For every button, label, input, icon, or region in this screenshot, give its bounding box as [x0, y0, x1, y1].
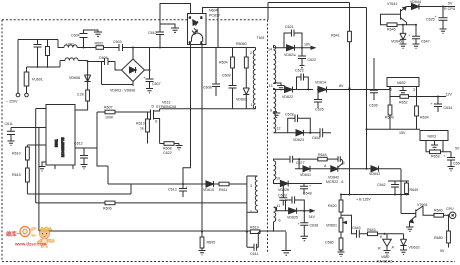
wire node to C604 [77, 47, 96, 49]
svg-text:FU601: FU601 [32, 78, 43, 82]
svg-text:V7605: V7605 [417, 203, 427, 207]
diode VD644 [407, 4, 456, 10]
svg-text:+: + [294, 54, 296, 58]
svg-text:R611: R611 [219, 188, 227, 192]
capacitor C638 [300, 211, 308, 241]
svg-text:VD610: VD610 [203, 188, 214, 192]
capacitor C634 [434, 97, 442, 113]
svg-text:R653: R653 [431, 154, 440, 158]
svg-text:R609: R609 [385, 116, 394, 120]
svg-text:T601: T601 [257, 36, 265, 40]
AC input terminal N [25, 93, 29, 97]
svg-text:+: + [186, 186, 188, 190]
secondary winding w4 115V [274, 161, 276, 180]
svg-text:C606: C606 [99, 56, 108, 60]
svg-text:R649: R649 [410, 188, 419, 192]
snubber C621 loop [284, 30, 302, 48]
svg-text:+: + [435, 15, 437, 19]
wiper wire to C643 [352, 223, 357, 234]
svg-text:VR601: VR601 [326, 223, 337, 227]
capacitor C610 [156, 24, 175, 48]
source resistor R608 [160, 143, 164, 145]
capacitor C608 [212, 48, 220, 97]
resistor R609 [389, 97, 391, 106]
svg-text:C604: C604 [71, 33, 80, 37]
svg-text:C626: C626 [315, 108, 324, 112]
capacitor C612 [80, 148, 88, 164]
regulator N652 box [387, 78, 419, 87]
svg-text:R CPU: R CPU [444, 7, 456, 11]
bleeder resistor [47, 40, 49, 68]
capacitor C636 [370, 88, 378, 100]
svg-text:+: + [444, 154, 446, 158]
capacitor C607 [145, 48, 154, 89]
potentiometer VR601 [340, 212, 342, 218]
capacitor C603 [104, 44, 134, 51]
MOSFET V613 [151, 109, 160, 144]
resistor R610 [26, 145, 28, 147]
ground near C610 [171, 28, 179, 32]
gate drive wire from R607 [97, 112, 108, 184]
svg-text:C641: C641 [312, 136, 321, 140]
fuse FU601 [26, 67, 28, 93]
IC pin 2 wire [11, 127, 46, 129]
resistor R602 [96, 46, 104, 50]
w2 bottom ground [273, 112, 281, 118]
transformer core dashed line [267, 20, 269, 252]
svg-text:C603: C603 [113, 40, 122, 44]
resistor R640 [434, 214, 444, 218]
svg-text:C611: C611 [5, 122, 13, 126]
capacitor C606 [88, 58, 122, 70]
capacitor C642 [391, 181, 399, 195]
R619 C611 snubber [250, 230, 259, 234]
snubber loop C over VD625 [286, 196, 305, 210]
capacitor C643 [357, 230, 368, 238]
svg-text:C621: C621 [285, 25, 294, 29]
svg-text:11: 11 [277, 204, 281, 208]
svg-text:C609: C609 [222, 74, 231, 78]
svg-text:15V: 15V [399, 131, 406, 135]
top feedback wire A [268, 3, 350, 20]
resistor R649 [406, 181, 408, 183]
diode VD623 [296, 130, 303, 136]
diode VD641 [295, 166, 331, 172]
svg-text:C642: C642 [377, 183, 386, 187]
svg-text:1: 1 [250, 210, 252, 214]
gate coupling cap [338, 156, 343, 164]
feedback divider chain R620 [340, 195, 342, 201]
wire x218 [217, 8, 219, 48]
svg-text:2: 2 [250, 51, 252, 55]
svg-text:R610: R610 [12, 152, 21, 156]
resistor R613 1k [147, 112, 149, 119]
+B 115V rail [341, 194, 409, 196]
snubber resistor R6060 [245, 48, 247, 58]
N603 pins [426, 141, 443, 150]
svg-text:VD608: VD608 [69, 76, 80, 80]
transformer aux winding [247, 176, 258, 212]
svg-text:VD603 - VD606: VD603 - VD606 [110, 89, 135, 93]
svg-text:C628: C628 [285, 112, 294, 116]
w1 bottom pin8 ground [274, 83, 285, 90]
bridge rectifier VD603-VD606 [122, 59, 145, 82]
collector wire [423, 206, 434, 215]
capacitor C648 [300, 184, 308, 195]
svg-text:R620: R620 [328, 204, 337, 208]
svg-text:R: R [378, 247, 381, 251]
svg-text:R605: R605 [207, 241, 216, 245]
svg-text:8: 8 [270, 108, 272, 112]
zener VD602 [243, 68, 249, 109]
thyristor feedback wire [298, 159, 300, 169]
ground at source [176, 144, 183, 150]
svg-text:R643: R643 [367, 228, 376, 232]
svg-text:VD622: VD622 [282, 95, 293, 99]
svg-text:R6060: R6060 [236, 42, 247, 46]
svg-text:V7641: V7641 [387, 2, 397, 6]
choke L601 winding 2 [60, 58, 88, 61]
opto pin wires top [160, 4, 367, 25]
svg-text:N604: N604 [209, 9, 218, 13]
svg-text:N652: N652 [397, 81, 406, 85]
34V arrow [310, 209, 314, 212]
svg-text:C625: C625 [426, 18, 435, 22]
svg-text:www.dzsc.com: www.dzsc.com [14, 242, 46, 247]
capacitor C655 [447, 152, 455, 171]
diode VD621 [287, 45, 316, 51]
svg-text:6: 6 [279, 219, 281, 223]
svg-text:100K: 100K [105, 116, 114, 120]
svg-text:R604: R604 [219, 61, 228, 65]
svg-text:VD641: VD641 [300, 173, 311, 177]
svg-text:L601: L601 [66, 42, 74, 46]
svg-text:R602: R602 [95, 41, 104, 45]
svg-text:5V: 5V [440, 249, 445, 253]
capacitor C625 [439, 7, 448, 34]
capacitor C604 [80, 30, 99, 48]
w5 bottom pin wire [273, 222, 275, 232]
zener VD608 [85, 72, 91, 82]
svg-text:N601: N601 [55, 139, 59, 147]
optocoupler N604 box [188, 14, 207, 45]
resistor R641 [349, 3, 351, 32]
svg-text:C639: C639 [278, 193, 287, 197]
resistor R653 [426, 148, 430, 152]
svg-text:C607: C607 [152, 82, 161, 86]
secondary winding w3 [274, 114, 276, 133]
svg-text:N603: N603 [428, 134, 437, 138]
resistor R634 [416, 97, 418, 107]
lower AC wire [27, 66, 61, 68]
svg-text:16V: 16V [304, 43, 311, 47]
svg-text:1: 1 [251, 103, 253, 107]
svg-text:C610: C610 [148, 31, 157, 35]
svg-text:MCR22 - 6: MCR22 - 6 [326, 180, 343, 184]
svg-text:C613: C613 [168, 188, 177, 192]
IC pin 1 wire [36, 108, 46, 110]
svg-text:CPU: CPU [446, 207, 454, 211]
capacitor C611 [7, 128, 15, 141]
svg-text:C647: C647 [421, 40, 430, 44]
resistor R607 [97, 111, 105, 113]
svg-text:3: 3 [250, 184, 252, 188]
secondary winding w2 8V [274, 88, 276, 112]
svg-text:STP80NC08: STP80NC08 [156, 105, 176, 109]
resistor C680 [340, 232, 342, 238]
ground near C604 [94, 32, 102, 36]
resistor R680 [448, 215, 450, 231]
svg-text:C677: C677 [296, 161, 305, 165]
primary return ground [282, 232, 292, 256]
B+ 115V junction wires [388, 169, 409, 214]
watermark dzsc logo [6, 227, 54, 248]
thyristor VD642 [331, 164, 367, 172]
wire B vertical [366, 8, 368, 169]
svg-text:PC817: PC817 [209, 14, 220, 18]
svg-text:8V: 8V [339, 84, 344, 88]
base network R645 [381, 14, 401, 24]
opto LED [193, 20, 198, 26]
svg-text:VD643: VD643 [369, 172, 380, 176]
svg-text:R641: R641 [331, 34, 340, 38]
svg-text:C612: C612 [74, 142, 83, 146]
snubber C628 loop [288, 115, 311, 133]
12V output wire [417, 96, 447, 98]
svg-text:G: G [342, 161, 345, 165]
resistor R615 [26, 160, 28, 168]
svg-text:+ B 115V: + B 115V [356, 197, 371, 201]
svg-text:+: + [409, 34, 411, 38]
junction dots [83, 47, 85, 49]
svg-text:C643: C643 [352, 226, 361, 230]
opto phototransistor [192, 33, 203, 42]
zener VD645 [400, 25, 407, 49]
transistor V7605 [401, 206, 423, 227]
svg-text:+: + [309, 184, 311, 188]
svg-text:VD642: VD642 [328, 176, 339, 180]
svg-text:10: 10 [276, 176, 280, 180]
svg-text:R640: R640 [434, 208, 443, 212]
svg-text:8: 8 [274, 81, 276, 85]
svg-text:~ 220V: ~ 220V [6, 100, 18, 104]
resistor R643 [368, 232, 378, 236]
ground below C611 [8, 141, 15, 145]
svg-text:5V: 5V [455, 146, 460, 150]
resistor R644 [318, 157, 327, 161]
capacitor C641 [303, 128, 331, 137]
svg-text:C611: C611 [250, 252, 258, 256]
svg-text:VD614: VD614 [315, 81, 326, 85]
16V arrow [311, 46, 315, 49]
left long rails [27, 184, 131, 194]
resistor R605 [201, 232, 203, 237]
svg-text:C680: C680 [325, 240, 334, 244]
svg-text:R619: R619 [250, 226, 259, 230]
w4 bottom wire [274, 180, 281, 184]
drain wire to transformer [160, 108, 256, 110]
snubber C623 loop [297, 74, 309, 90]
svg-text:VD602: VD602 [236, 98, 247, 102]
svg-text:13: 13 [269, 84, 273, 88]
svg-text:C636: C636 [369, 104, 378, 108]
svg-text:R607: R607 [104, 106, 113, 110]
svg-text:+: + [298, 222, 300, 226]
AC input terminal L [17, 40, 19, 94]
15V rail [367, 128, 421, 130]
svg-text:VD623: VD623 [293, 138, 304, 142]
svg-text:1k: 1k [140, 127, 144, 131]
IC N601 box [46, 105, 75, 166]
svg-text:12: 12 [277, 127, 281, 131]
TL431 V680 [383, 234, 392, 255]
diode VD643 [367, 166, 402, 172]
svg-text:R645: R645 [387, 28, 396, 32]
svg-text:R652: R652 [399, 101, 408, 105]
IC pin3 wire [27, 144, 46, 146]
svg-text:C648: C648 [303, 191, 312, 195]
snubber resistor R604 [232, 48, 234, 58]
capacitor C626 [314, 90, 322, 109]
svg-text:D: D [152, 105, 155, 109]
capacitor C639 [279, 184, 287, 206]
CPU terminal [449, 212, 456, 219]
svg-text:12V: 12V [446, 92, 453, 96]
svg-text:KA431AZ: KA431AZ [377, 259, 393, 263]
svg-text:14: 14 [268, 48, 272, 52]
wire B+ rail top [133, 47, 256, 49]
X-capacitor [34, 40, 42, 68]
IC bottom pin wire [55, 165, 73, 169]
zener VD633 [400, 234, 407, 255]
capacitor C622 [298, 48, 306, 68]
svg-text:C655: C655 [453, 162, 460, 166]
svg-text:C622: C622 [308, 58, 317, 62]
svg-text:C608: C608 [203, 86, 212, 90]
lower AC wire to bridge [87, 61, 89, 73]
svg-text:VD645: VD645 [391, 40, 402, 44]
svg-text:34V: 34V [309, 215, 316, 219]
svg-text:C638: C638 [310, 224, 319, 228]
svg-text:VD626: VD626 [278, 188, 289, 192]
secondary winding w5 34V [274, 207, 276, 221]
IC right pin C612 wire [75, 147, 97, 149]
svg-text:VD633: VD633 [409, 245, 420, 249]
diode VD626 [280, 181, 322, 187]
choke L601 winding 1 [59, 61, 61, 68]
svg-text:R606: R606 [103, 207, 112, 211]
diode VD614 [318, 87, 390, 93]
transformer T601 primary winding [253, 48, 255, 109]
resistor R611 [219, 182, 229, 186]
wire top-left node [18, 40, 64, 48]
transistor V7641 [401, 7, 407, 25]
svg-text:R680: R680 [434, 236, 443, 240]
svg-text:R613: R613 [136, 122, 145, 126]
svg-text:2.2k: 2.2k [77, 93, 84, 97]
secondary winding w1 16V [274, 45, 276, 83]
opto pin wires bottom [183, 45, 202, 232]
svg-text:5V: 5V [448, 2, 453, 6]
IC ground pin [42, 162, 46, 166]
svg-text:2: 2 [390, 88, 392, 92]
svg-text:V680: V680 [381, 255, 389, 259]
regulator N603 box [420, 131, 448, 141]
svg-text:3: 3 [413, 88, 415, 92]
resistor R652 [390, 96, 400, 98]
svg-text:MC44608P75: MC44608P75 [61, 137, 65, 157]
diode VD625 [289, 208, 313, 214]
svg-text:R644: R644 [318, 153, 327, 157]
capacitor C647 [412, 25, 420, 49]
vertical feed wires from pin2 node [36, 109, 39, 232]
svg-text:C634: C634 [444, 106, 453, 110]
capacitor C609 [229, 68, 237, 109]
dangling vertical to C636 [373, 58, 375, 88]
diode VD622 [285, 87, 314, 93]
capacitor C677 [290, 156, 318, 163]
svg-text:+: + [431, 102, 433, 106]
svg-text:C622: C622 [163, 151, 172, 155]
N652 pins [390, 87, 417, 97]
resistor 2.2k [86, 90, 90, 101]
svg-text:VD625: VD625 [287, 216, 298, 220]
mascot [36, 227, 54, 248]
aux rectifier wire VD610 area [108, 176, 247, 232]
svg-text:R615: R615 [12, 173, 21, 177]
svg-text:+: + [144, 76, 146, 80]
diode VD610 [206, 181, 214, 187]
wire bridge minus [102, 62, 134, 85]
svg-text:VD644: VD644 [410, 0, 421, 4]
capacitor C613 [179, 184, 187, 197]
svg-text:C623: C623 [295, 69, 304, 73]
svg-text:R634: R634 [420, 116, 429, 120]
